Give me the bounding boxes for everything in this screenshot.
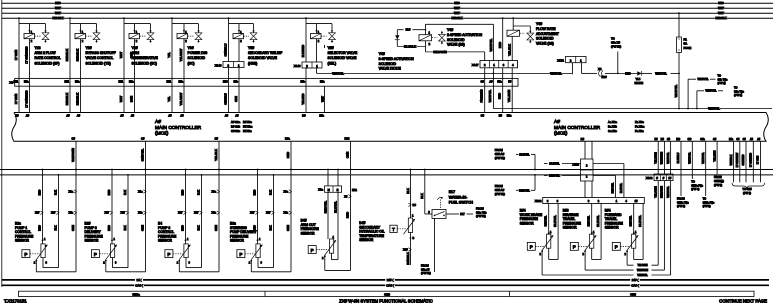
svg-text:RED/YEL: RED/YEL xyxy=(549,175,560,178)
svg-text:(PW #): (PW #) xyxy=(714,183,722,187)
svg-text:BLK/YEL: BLK/YEL xyxy=(620,182,623,193)
svg-text:SENSOR: SENSOR xyxy=(359,238,374,242)
svg-text:SOLENOID (YB): SOLENOID (YB) xyxy=(86,61,111,65)
svg-text:E#a: E#a xyxy=(24,81,29,84)
svg-text:FROM: FROM xyxy=(495,184,504,188)
svg-text:X#7: X#7 xyxy=(35,212,40,215)
svg-text:24# (: 24# ( xyxy=(632,278,639,282)
svg-text:YEL/BRN: YEL/BRN xyxy=(507,90,511,102)
svg-text:(SEL): (SEL) xyxy=(328,61,337,65)
svg-text:(PW E#): (PW E#) xyxy=(476,214,486,218)
svg-text:S#a X#: S#a X# xyxy=(611,41,620,45)
svg-text:BLK/YEL: BLK/YEL xyxy=(638,215,642,227)
svg-text:B# X2e: B# X2e xyxy=(243,120,252,124)
svg-text:X171: X171 xyxy=(557,59,564,63)
svg-text:SE#-A#: SE#-A# xyxy=(495,188,505,192)
svg-text:ADJUSTMENT: ADJUSTMENT xyxy=(536,32,559,36)
svg-text:RED/YEL: RED/YEL xyxy=(545,215,548,226)
svg-text:WHT/YEL: WHT/YEL xyxy=(332,71,344,75)
svg-text:X147: X147 xyxy=(472,63,479,67)
svg-text:RED/BLK: RED/BLK xyxy=(65,49,69,61)
svg-text:RED: RED xyxy=(38,190,42,196)
svg-text:X#7: X#7 xyxy=(51,212,56,215)
svg-text:GRN: GRN xyxy=(234,96,238,102)
svg-text:Aa X2a: Aa X2a xyxy=(608,120,617,124)
svg-text:X#n: X#n xyxy=(138,212,143,215)
svg-text:SOLENOID: SOLENOID xyxy=(379,62,397,66)
svg-text:WHT/YEL: WHT/YEL xyxy=(701,152,705,164)
svg-text:E#n: E#n xyxy=(507,113,512,117)
svg-text:LT GRN: LT GRN xyxy=(14,50,18,60)
svg-text:C#: C# xyxy=(481,113,485,117)
svg-text:WHT/YEL: WHT/YEL xyxy=(688,152,692,164)
svg-text:RED: RED xyxy=(345,212,349,218)
svg-text:X#7: X#7 xyxy=(266,212,271,215)
svg-text:TO: TO xyxy=(703,197,707,201)
svg-text:TO: TO xyxy=(611,37,615,41)
svg-text:B: B xyxy=(413,236,415,240)
svg-text:SENSOR: SENSOR xyxy=(158,239,173,243)
svg-text:X#7: X#7 xyxy=(121,212,126,215)
svg-text:RED: RED xyxy=(625,71,631,75)
svg-text:Ca X2c: Ca X2c xyxy=(608,129,617,133)
svg-text:WHT/YEL: WHT/YEL xyxy=(488,89,492,102)
svg-text:Y##: Y## xyxy=(328,46,334,50)
svg-text:SE1E(1): SE1E(1) xyxy=(714,179,724,183)
svg-text:(PW E#): (PW E#) xyxy=(611,45,621,49)
svg-text:WHT/YEL: WHT/YEL xyxy=(705,90,717,93)
svg-text:REGENERATIVE: REGENERATIVE xyxy=(132,56,159,60)
svg-text:MAIN CONTROLLER: MAIN CONTROLLER xyxy=(554,125,601,131)
svg-text:PNK/BRN: PNK/BRN xyxy=(480,90,484,103)
svg-text:VALVE DIODE: VALVE DIODE xyxy=(379,67,402,71)
svg-text:WHT/YEL: WHT/YEL xyxy=(489,38,493,51)
svg-text:BLK/YEL: BLK/YEL xyxy=(549,163,560,166)
svg-text:X1a: X1a xyxy=(138,190,143,193)
svg-text:RED/YEL: RED/YEL xyxy=(519,189,530,192)
svg-text:FROM: FROM xyxy=(677,197,685,201)
svg-text:CA# (: CA# ( xyxy=(386,283,393,287)
svg-text:WHT/YEL: WHT/YEL xyxy=(637,275,648,277)
svg-text:BLK: BLK xyxy=(197,225,201,230)
svg-text:Ea X2e: Ea X2e xyxy=(635,120,644,124)
svg-text:X148: X148 xyxy=(294,64,301,68)
svg-text:SENSOR: SENSOR xyxy=(15,239,30,243)
svg-text:SENSOR: SENSOR xyxy=(230,239,245,243)
svg-text:SE#a T(m: SE#a T(m xyxy=(677,200,689,204)
svg-text:X1a: X1a xyxy=(69,190,74,193)
svg-text:A#: A# xyxy=(155,119,161,125)
svg-text:Fa X2m: Fa X2m xyxy=(635,125,645,129)
svg-text:WHT: WHT xyxy=(55,11,61,15)
svg-text:MAIN CONTROLLER: MAIN CONTROLLER xyxy=(155,125,202,131)
svg-text:SE3a: SE3a xyxy=(132,292,140,296)
svg-text:E#e: E#e xyxy=(234,81,239,84)
svg-text:BLK: BLK xyxy=(406,188,410,194)
svg-text:BLK: BLK xyxy=(269,190,273,195)
svg-text:(MC2): (MC2) xyxy=(554,130,568,136)
svg-text:C#a: C#a xyxy=(700,138,705,141)
svg-text:WHT/YEL: WHT/YEL xyxy=(708,107,720,111)
svg-text:POWER DIG: POWER DIG xyxy=(188,51,208,55)
svg-text:SENSOR: SENSOR xyxy=(563,226,578,230)
svg-text:CA# (: CA# ( xyxy=(135,283,142,287)
svg-text:(PW #): (PW #) xyxy=(734,93,742,97)
svg-text:TO: TO xyxy=(734,86,738,90)
svg-text:B#a: B#a xyxy=(729,139,734,141)
svg-text:BLK/YEL: BLK/YEL xyxy=(553,215,557,227)
svg-text:RED: RED xyxy=(718,1,724,5)
svg-text:LT GRN/RED: LT GRN/RED xyxy=(24,46,28,63)
svg-text:RATE CONTROL: RATE CONTROL xyxy=(35,56,61,60)
svg-text:BLK: BLK xyxy=(123,190,127,195)
svg-text:BLK: BLK xyxy=(123,225,127,230)
svg-text:BLK: BLK xyxy=(197,190,201,195)
svg-text:RED: RED xyxy=(38,225,42,231)
svg-text:Fa X2n: Fa X2n xyxy=(635,129,644,133)
svg-text:E#r: E#r xyxy=(676,138,680,141)
svg-text:P: P xyxy=(24,252,27,257)
svg-text:E#1: E#1 xyxy=(167,81,172,84)
svg-text:X146: X146 xyxy=(215,64,222,68)
svg-text:LT GRN/WHT: LT GRN/WHT xyxy=(736,152,739,167)
svg-text:X2: X2 xyxy=(9,80,13,84)
svg-text:GRN: GRN xyxy=(286,225,290,231)
svg-text:T.X1173151: T.X1173151 xyxy=(4,298,27,303)
svg-text:WHT/YEL: WHT/YEL xyxy=(550,71,562,75)
svg-text:(PW E#): (PW E#) xyxy=(495,156,505,160)
svg-text:(MC2): (MC2) xyxy=(155,130,169,136)
svg-text:SENSOR: SENSOR xyxy=(605,226,620,230)
svg-text:RED/GRN: RED/GRN xyxy=(433,50,446,54)
svg-text:ZX# W-#N SYSTEM FUNCTIONAL SCH: ZX# W-#N SYSTEM FUNCTIONAL SCHEMATIC xyxy=(339,298,433,303)
svg-text:X#7: X#7 xyxy=(250,212,255,215)
svg-text:BLU/RED: BLU/RED xyxy=(301,45,305,58)
svg-text:P: P xyxy=(94,252,97,257)
svg-text:GRN: GRN xyxy=(214,225,218,231)
svg-text:RED/YEL: RED/YEL xyxy=(323,200,327,213)
svg-text:WHT: WHT xyxy=(119,51,123,58)
svg-text:WHT/GRN: WHT/GRN xyxy=(660,152,664,165)
svg-text:RED: RED xyxy=(107,190,111,196)
svg-text:Y3#: Y3# xyxy=(132,46,138,50)
svg-text:E#1: E#1 xyxy=(65,81,70,84)
svg-text:YEL/GRN: YEL/GRN xyxy=(637,265,647,267)
svg-text:(PW #): (PW #) xyxy=(703,204,711,208)
svg-text:LT GRN/RED: LT GRN/RED xyxy=(750,153,753,168)
svg-text:D#a: D#a xyxy=(285,137,290,141)
svg-text:(PW E#): (PW E#) xyxy=(421,271,431,275)
svg-text:A#: A# xyxy=(168,113,172,117)
svg-text:E#e: E#e xyxy=(301,81,306,84)
svg-text:P: P xyxy=(530,245,533,250)
svg-text:DIODE: DIODE xyxy=(635,81,644,85)
svg-text:ARM: ARM xyxy=(132,51,140,55)
svg-text:Y4#: Y4# xyxy=(536,22,542,26)
svg-text:TO: TO xyxy=(718,74,722,78)
svg-text:A#: A# xyxy=(26,113,30,117)
svg-text:Y4#: Y4# xyxy=(379,52,385,56)
svg-text:SE#a F(m: SE#a F(m xyxy=(691,183,703,187)
svg-text:SOLENOID (SF): SOLENOID (SF) xyxy=(35,61,60,65)
svg-text:R#: R# xyxy=(413,203,417,207)
svg-text:24# (: 24# ( xyxy=(387,278,394,282)
svg-text:E11: E11 xyxy=(352,188,357,192)
svg-text:E#a: E#a xyxy=(179,81,184,84)
svg-text:BYPASS SHUTOFF: BYPASS SHUTOFF xyxy=(86,51,116,55)
svg-text:FROM: FROM xyxy=(476,207,484,211)
svg-text:RED/BLK: RED/BLK xyxy=(52,16,63,20)
svg-text:SOLENOID: SOLENOID xyxy=(536,37,554,41)
svg-text:F# X2m: F# X2m xyxy=(243,125,253,129)
svg-text:WHT/YEL: WHT/YEL xyxy=(666,186,670,198)
svg-text:X#n: X#n xyxy=(212,212,217,215)
svg-text:SENSOR: SENSOR xyxy=(520,221,535,225)
svg-text:YEL: YEL xyxy=(167,52,171,58)
svg-text:C#r: C#r xyxy=(687,138,691,141)
svg-text:LT GRN/RED: LT GRN/RED xyxy=(24,90,28,107)
svg-text:C#: C# xyxy=(214,137,218,141)
svg-text:A#: A# xyxy=(131,113,135,117)
svg-text:N: N xyxy=(337,189,339,192)
svg-text:CA# (: CA# ( xyxy=(631,283,638,287)
svg-text:Y23: Y23 xyxy=(35,46,41,50)
svg-text:P: P xyxy=(615,245,618,250)
svg-text:BLU/BLK: BLU/BLK xyxy=(404,45,416,49)
svg-text:X#7: X#7 xyxy=(178,212,183,215)
svg-text:FROM: FROM xyxy=(714,175,722,179)
svg-text:RED: RED xyxy=(107,225,111,231)
svg-text:RED: RED xyxy=(253,190,257,196)
svg-text:BRN/BLK: BRN/BLK xyxy=(406,252,410,264)
svg-text:RED/BLK: RED/BLK xyxy=(65,93,69,105)
svg-text:BLK/YEL: BLK/YEL xyxy=(519,154,530,157)
svg-text:24 (: 24 ( xyxy=(137,278,142,282)
svg-text:RED/YEL: RED/YEL xyxy=(630,215,633,226)
svg-text:WHT/YEL: WHT/YEL xyxy=(655,71,667,75)
svg-text:P: P xyxy=(167,252,170,257)
svg-text:E17: E17 xyxy=(449,190,455,194)
svg-text:BLK/YEL: BLK/YEL xyxy=(333,201,337,213)
svg-text:X1a: X1a xyxy=(318,188,323,192)
svg-text:A#: A# xyxy=(554,119,560,125)
svg-text:BLK: BLK xyxy=(54,190,58,195)
svg-text:(PW #): (PW #) xyxy=(718,81,726,85)
svg-text:TO SE#: TO SE# xyxy=(742,187,752,191)
svg-text:S#n A#: S#n A# xyxy=(421,267,430,271)
svg-text:WHT/YEL: WHT/YEL xyxy=(674,84,678,97)
svg-text:E#a: E#a xyxy=(75,81,80,84)
svg-text:Y1#: Y1# xyxy=(86,46,92,50)
svg-text:RED: RED xyxy=(498,42,502,48)
svg-text:YEL/GRN: YEL/GRN xyxy=(653,152,657,164)
svg-text:RED/BLK: RED/BLK xyxy=(451,16,462,20)
svg-text:WHT: WHT xyxy=(119,95,123,102)
svg-text:E#n: E#n xyxy=(319,113,324,117)
svg-text:GRN/RED: GRN/RED xyxy=(742,154,745,165)
svg-text:BLK: BLK xyxy=(269,225,273,230)
svg-text:Y9#: Y9# xyxy=(188,46,194,50)
svg-text:BLT: BLT xyxy=(460,213,465,216)
svg-text:GRN: GRN xyxy=(71,225,75,231)
svg-text:Y4#: Y4# xyxy=(447,28,453,32)
svg-text:FUEL SWITCH: FUEL SWITCH xyxy=(449,201,474,205)
svg-text:E#: E# xyxy=(499,113,503,117)
svg-text:SECONDARY RELIEF: SECONDARY RELIEF xyxy=(248,51,282,55)
svg-text:LT GRN: LT GRN xyxy=(757,155,760,164)
svg-text:A#: A# xyxy=(66,113,70,117)
svg-text:X#n: X#n xyxy=(284,212,289,215)
svg-text:RED/YEL: RED/YEL xyxy=(588,215,591,226)
svg-text:FROM: FROM xyxy=(495,148,504,152)
svg-text:D#d: D#d xyxy=(345,137,350,141)
svg-text:ORN/BLU: ORN/BLU xyxy=(223,93,227,105)
svg-text:P: P xyxy=(239,252,242,257)
svg-text:Y5#: Y5# xyxy=(248,46,254,50)
svg-text:RED/BLK: RED/BLK xyxy=(75,49,79,61)
svg-text:YEL/RED: YEL/RED xyxy=(301,93,305,104)
svg-text:WHT: WHT xyxy=(718,11,724,15)
svg-text:GRN/YEL: GRN/YEL xyxy=(140,148,144,161)
svg-text:WHT: WHT xyxy=(55,6,61,10)
svg-text:SOLENOID: SOLENOID xyxy=(447,38,465,42)
svg-text:LT GRN: LT GRN xyxy=(14,94,18,104)
svg-text:YEL/WHT: YEL/WHT xyxy=(179,92,183,105)
svg-text:BLK: BLK xyxy=(420,193,424,199)
svg-text:Ba X2b: Ba X2b xyxy=(608,125,617,129)
svg-text:RED: RED xyxy=(181,225,185,231)
svg-text:SOLENOID: SOLENOID xyxy=(188,56,206,60)
svg-text:SENSOR: SENSOR xyxy=(85,239,100,243)
svg-text:(PW 4): (PW 4) xyxy=(691,187,699,191)
svg-text:WHT: WHT xyxy=(454,11,460,15)
svg-text:E#1: E#1 xyxy=(119,81,124,84)
svg-text:WHT/GRN: WHT/GRN xyxy=(637,270,648,272)
svg-text:M: M xyxy=(328,189,330,192)
svg-text:S#n T(m: S#n T(m xyxy=(718,77,728,81)
svg-text:RED: RED xyxy=(286,152,290,158)
svg-text:A#: A# xyxy=(225,113,229,117)
svg-text:WHT/YEL: WHT/YEL xyxy=(697,78,709,81)
svg-text:X#7: X#7 xyxy=(194,212,199,215)
svg-text:A#: A# xyxy=(120,113,124,117)
svg-text:P: P xyxy=(311,248,314,253)
svg-text:X#7: X#7 xyxy=(105,212,110,215)
svg-text:WHT/BLK: WHT/BLK xyxy=(730,154,733,165)
svg-text:SOLENOID VALVE: SOLENOID VALVE xyxy=(248,56,278,60)
svg-text:RED: RED xyxy=(498,93,502,99)
svg-text:SE#-A#: SE#-A# xyxy=(495,152,505,156)
svg-text:BLU: BLU xyxy=(406,29,411,32)
svg-text:YEL/BRN: YEL/BRN xyxy=(712,150,716,161)
svg-text:(HSE): (HSE) xyxy=(248,61,257,65)
svg-text:RED/GRN: RED/GRN xyxy=(660,186,664,198)
svg-text:ARM 2 FLOW: ARM 2 FLOW xyxy=(35,51,57,55)
svg-text:WATER-IN-: WATER-IN- xyxy=(449,195,468,199)
svg-text:ORN: ORN xyxy=(345,152,349,158)
svg-text:E#n: E#n xyxy=(320,81,325,84)
svg-text:T: T xyxy=(392,227,395,232)
svg-text:SENSOR: SENSOR xyxy=(301,231,316,235)
svg-text:SE3: SE3 xyxy=(384,292,390,296)
svg-text:YEL/GRN: YEL/GRN xyxy=(653,186,657,198)
svg-text:WHT/YEL: WHT/YEL xyxy=(666,152,670,164)
svg-text:TR#: TR# xyxy=(601,75,607,79)
svg-text:D#: D# xyxy=(581,137,585,141)
svg-text:Y14: Y14 xyxy=(636,77,641,81)
svg-text:X1a: X1a xyxy=(284,190,289,193)
svg-text:2-SPEED ACTIVATION: 2-SPEED ACTIVATION xyxy=(447,33,483,37)
svg-text:BLK/YEL: BLK/YEL xyxy=(596,215,600,227)
svg-text:WHT: WHT xyxy=(718,6,724,10)
svg-text:YEL/BLK: YEL/BLK xyxy=(214,149,218,161)
svg-text:SOLENOID VALVE: SOLENOID VALVE xyxy=(328,56,358,60)
svg-text:A#: A# xyxy=(77,113,81,117)
svg-text:BRN: BRN xyxy=(129,96,133,102)
svg-text:C#: C# xyxy=(141,137,145,141)
svg-text:E#d: E#d xyxy=(223,81,228,84)
svg-text:RED: RED xyxy=(454,1,460,5)
svg-text:CONTINUE NEXT PAGE: CONTINUE NEXT PAGE xyxy=(719,298,767,303)
svg-text:A# G2a: A# G2a xyxy=(231,120,241,124)
svg-text:RED/BLK: RED/BLK xyxy=(715,16,726,20)
svg-text:SOLENOID (SC): SOLENOID (SC) xyxy=(132,61,157,65)
svg-text:VALVE CONTROL: VALVE CONTROL xyxy=(86,56,114,60)
svg-text:F# X2n: F# X2n xyxy=(243,129,252,133)
svg-text:RED/BLK: RED/BLK xyxy=(75,93,79,105)
svg-text:YEL/WHT: YEL/WHT xyxy=(179,48,183,61)
svg-text:YEL/BLK: YEL/BLK xyxy=(508,44,512,56)
svg-text:B# G2b: B# G2b xyxy=(231,125,241,129)
svg-text:SE3: SE3 xyxy=(630,292,636,296)
svg-text:FUSE: FUSE xyxy=(684,46,692,50)
svg-text:D#: D# xyxy=(302,113,306,117)
svg-text:A#: A# xyxy=(235,113,239,117)
svg-text:VALVE (S#): VALVE (S#) xyxy=(536,42,554,46)
svg-text:A#: A# xyxy=(180,113,184,117)
svg-text:SE#n F(m: SE#n F(m xyxy=(703,200,715,204)
svg-text:ORN/BLU: ORN/BLU xyxy=(223,44,227,57)
svg-text:WHT/GRN: WHT/GRN xyxy=(71,148,75,162)
svg-text:F#a: F#a xyxy=(497,81,502,84)
svg-text:X1a: X1a xyxy=(212,190,217,193)
svg-text:WHT: WHT xyxy=(454,6,460,10)
svg-text:BLK: BLK xyxy=(54,225,58,230)
svg-text:TO: TO xyxy=(691,180,695,184)
svg-text:(SC): (SC) xyxy=(188,61,195,65)
svg-text:C#: C# xyxy=(71,137,75,141)
svg-text:(PW E#): (PW E#) xyxy=(495,192,505,196)
svg-text:YEL: YEL xyxy=(167,96,171,102)
svg-text:RED/YEL: RED/YEL xyxy=(612,182,615,193)
svg-text:WHT: WHT xyxy=(320,96,324,102)
svg-text:FROM: FROM xyxy=(421,264,429,268)
svg-text:RED: RED xyxy=(181,190,185,196)
svg-text:(PW #): (PW #) xyxy=(743,191,751,195)
svg-text:S#m T#n: S#m T#n xyxy=(476,210,487,214)
svg-text:X4: X4 xyxy=(598,67,602,71)
svg-text:E#a: E#a xyxy=(129,81,134,84)
svg-text:VALVE (S#): VALVE (S#) xyxy=(447,43,465,47)
svg-text:RED: RED xyxy=(55,1,61,5)
svg-text:C# G2c: C# G2c xyxy=(231,129,241,133)
svg-text:3-SPEED ACTIVATION: 3-SPEED ACTIVATION xyxy=(379,57,415,61)
svg-text:(PW #): (PW #) xyxy=(677,204,685,208)
svg-text:GRN: GRN xyxy=(141,225,145,231)
svg-text:X#n: X#n xyxy=(69,212,74,215)
svg-text:S#n T(m: S#n T(m xyxy=(734,89,744,93)
svg-text:FLOW RATE: FLOW RATE xyxy=(536,27,556,31)
